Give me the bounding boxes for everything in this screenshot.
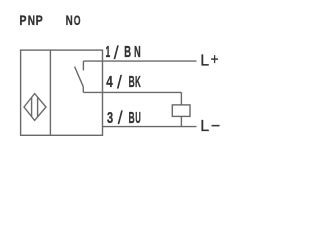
svg-text:N: N bbox=[28, 13, 35, 29]
svg-text:L: L bbox=[200, 52, 209, 69]
svg-text:K: K bbox=[135, 73, 141, 91]
svg-text:4: 4 bbox=[106, 73, 113, 90]
svg-text:/: / bbox=[118, 108, 124, 129]
svg-text:N: N bbox=[66, 12, 73, 28]
svg-text:/: / bbox=[114, 42, 120, 63]
svg-text:U: U bbox=[135, 109, 141, 127]
svg-text:N: N bbox=[134, 43, 141, 61]
svg-text:L: L bbox=[200, 118, 209, 135]
svg-text:/: / bbox=[117, 72, 123, 93]
svg-text:O: O bbox=[74, 14, 81, 28]
svg-text:1: 1 bbox=[106, 44, 111, 61]
svg-text:B: B bbox=[124, 43, 131, 61]
svg-text:P: P bbox=[19, 13, 26, 29]
svg-text:+: + bbox=[211, 52, 219, 69]
svg-text:3: 3 bbox=[107, 109, 113, 126]
svg-text:P: P bbox=[36, 13, 43, 29]
svg-text:B: B bbox=[129, 73, 135, 90]
svg-text:B: B bbox=[129, 109, 135, 126]
svg-text:−: − bbox=[211, 118, 220, 135]
